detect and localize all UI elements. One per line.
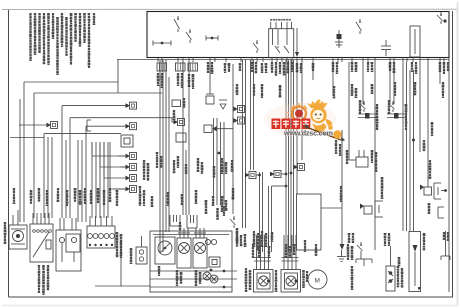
arrow connector E5b (130, 175, 137, 182)
bus wire E (44, 133, 121, 135)
ground bracket (356, 258, 372, 260)
generator box (9, 225, 27, 249)
border left (8, 10, 10, 297)
headlight left box (281, 270, 301, 293)
ignition switch box (30, 224, 53, 262)
E603 bracket (437, 207, 439, 218)
harness group (286, 60, 294, 252)
washer tank box (409, 232, 421, 292)
right wires bottom (445, 231, 447, 256)
watermark mascot (307, 100, 328, 108)
border bottom (9, 296, 454, 298)
switch S1 (177, 16, 179, 19)
bus wire B (62, 105, 126, 107)
watermark text weiku (272, 119, 281, 130)
ecu box (297, 194, 322, 250)
instrument panel label (116, 232, 119, 235)
connector bracket A (169, 215, 171, 226)
clock box (121, 135, 133, 147)
small box right (209, 257, 220, 267)
fuse holder 1 (157, 63, 167, 71)
wire from ecu (321, 207, 342, 209)
arrow connector E8 (238, 117, 245, 124)
branch to E5 (99, 142, 101, 167)
wire x297 (296, 60, 298, 194)
branch to E4 (91, 142, 93, 156)
switch S2 (189, 29, 191, 32)
headlight right box (254, 270, 274, 293)
bottom centre labels (236, 231, 274, 251)
watermark halo (264, 103, 336, 137)
arrow connector E10 (274, 171, 281, 178)
ac pressure switch (360, 242, 362, 245)
engine room box inner top (153, 234, 229, 236)
mid harness wires (214, 118, 225, 205)
fuel sender label (381, 177, 384, 179)
wire colour labels (236, 82, 445, 98)
mid headlight label (275, 270, 277, 273)
harness pair 4 (268, 186, 270, 252)
harness pair 1 (242, 60, 244, 228)
fuse F1 (153, 42, 171, 44)
scan edge right (457, 2, 459, 306)
headlight left labels (302, 270, 305, 273)
relay circles (205, 239, 210, 244)
horn ground wire (120, 240, 122, 286)
centre labels (231, 160, 343, 258)
capacitor C2 (381, 45, 391, 47)
right labels band (335, 84, 434, 156)
wire pair mid (182, 62, 184, 215)
horn unit (136, 247, 147, 264)
fuse box wires (59, 218, 61, 230)
bulb unit text (397, 266, 400, 268)
diode D1 (219, 99, 227, 101)
fuse box lower (56, 230, 81, 271)
bus wire D (86, 125, 129, 127)
note arrow (340, 244, 345, 250)
ground symbol right (341, 250, 343, 257)
border right inner (448, 11, 450, 292)
resistor block R1 (410, 26, 420, 57)
arrow connector E7 (238, 106, 245, 113)
left wire labels (13, 188, 119, 206)
branch to E5c (109, 142, 111, 189)
wire x420 (419, 62, 421, 152)
twin lamps (203, 272, 211, 280)
fuse stubs (158, 58, 444, 63)
mid harness labels (212, 196, 215, 198)
coolant sensor (424, 187, 432, 195)
label 141 box (172, 100, 181, 107)
capacitor C3 (209, 62, 211, 94)
junction dots bottom (223, 270, 226, 273)
fuse labels (157, 62, 450, 89)
scan edge bottom (2, 305, 458, 307)
junction box J/B outline (147, 12, 449, 58)
thermo switch label (371, 150, 374, 152)
arrow connector E2 (130, 102, 137, 109)
wire drop with arrow (296, 28, 298, 56)
oil pressure switch 2 (392, 101, 394, 104)
fuse holder 3 (188, 63, 198, 71)
wire x313 (312, 62, 314, 80)
arrow connector E5 (130, 164, 137, 171)
svg-text:www.dzsc.com: www.dzsc.com (283, 129, 333, 138)
wire x390 (389, 62, 391, 104)
switch S5 (440, 12, 442, 15)
wire x333 (332, 62, 334, 96)
condenser fan box (193, 238, 207, 268)
scan edge top (2, 8, 457, 10)
arrow connector E4 (130, 153, 137, 160)
border right outer (452, 11, 454, 297)
relay block K1 (269, 29, 294, 58)
wire x233 (232, 64, 234, 214)
capacitor C1 (338, 30, 340, 48)
svg-text:M: M (315, 278, 320, 285)
arrow connector E9 (249, 172, 256, 179)
wire x428 (427, 62, 429, 187)
wire x302 (301, 60, 303, 160)
ac pressure switch labels (348, 233, 351, 235)
bus end drop (117, 60, 119, 94)
wire x342 (341, 130, 343, 244)
ignition labels (38, 265, 40, 268)
bus under box (117, 59, 449, 61)
right label pair (384, 233, 387, 235)
component small box (176, 133, 186, 142)
engine room box (150, 231, 232, 292)
thermo switch (356, 157, 368, 167)
bottom right labels (443, 232, 445, 234)
generator wires (12, 215, 14, 225)
relay K2 (178, 119, 185, 126)
headlight right labels (245, 268, 247, 271)
fuse holder 2 (176, 63, 186, 71)
fan labels (176, 270, 178, 273)
legend text block (29, 13, 95, 75)
left wire bundle (20, 82, 108, 222)
blower motor (308, 270, 327, 289)
arrow connector E3 (130, 123, 137, 130)
wire x363 (362, 62, 364, 104)
switch S3 (256, 40, 258, 43)
bracket connector (86, 120, 88, 131)
oil pressure switch 1 (363, 101, 365, 104)
main harness wires (160, 60, 169, 252)
arrow connector E11 (298, 164, 305, 171)
bus wire F (10, 137, 44, 139)
switch S4 (359, 19, 361, 22)
wire x375 (374, 62, 376, 250)
harness pair 2 (250, 60, 252, 170)
asterisk mark (418, 287, 421, 290)
motor unit A (155, 237, 175, 264)
fuse F2 (206, 37, 218, 39)
arrow connector E5c (130, 186, 137, 193)
wire group right (402, 62, 404, 231)
bus wire C (70, 117, 172, 119)
wire x440 (439, 62, 441, 84)
connector with arrow E1 (51, 122, 58, 129)
radiator fan box (177, 238, 191, 268)
E603 label (428, 203, 431, 206)
bus wires bottom (150, 270, 237, 272)
bus wire A (34, 92, 162, 94)
coolant sensor label (429, 160, 431, 162)
fuel sender (364, 206, 372, 214)
left small switch (233, 216, 235, 219)
connector bracket B (186, 215, 188, 228)
junction dot (285, 185, 288, 188)
bulb unit right (386, 266, 395, 291)
connector strip box (87, 226, 115, 248)
wire x349 (348, 62, 350, 160)
reverse arrow box (204, 125, 212, 133)
bus wire G (24, 81, 118, 83)
watermark seal ring (292, 107, 306, 121)
harness pair 3 (259, 172, 261, 252)
mid labels band (139, 152, 228, 214)
rheostat label (398, 257, 401, 259)
branch to E5b (103, 142, 105, 178)
